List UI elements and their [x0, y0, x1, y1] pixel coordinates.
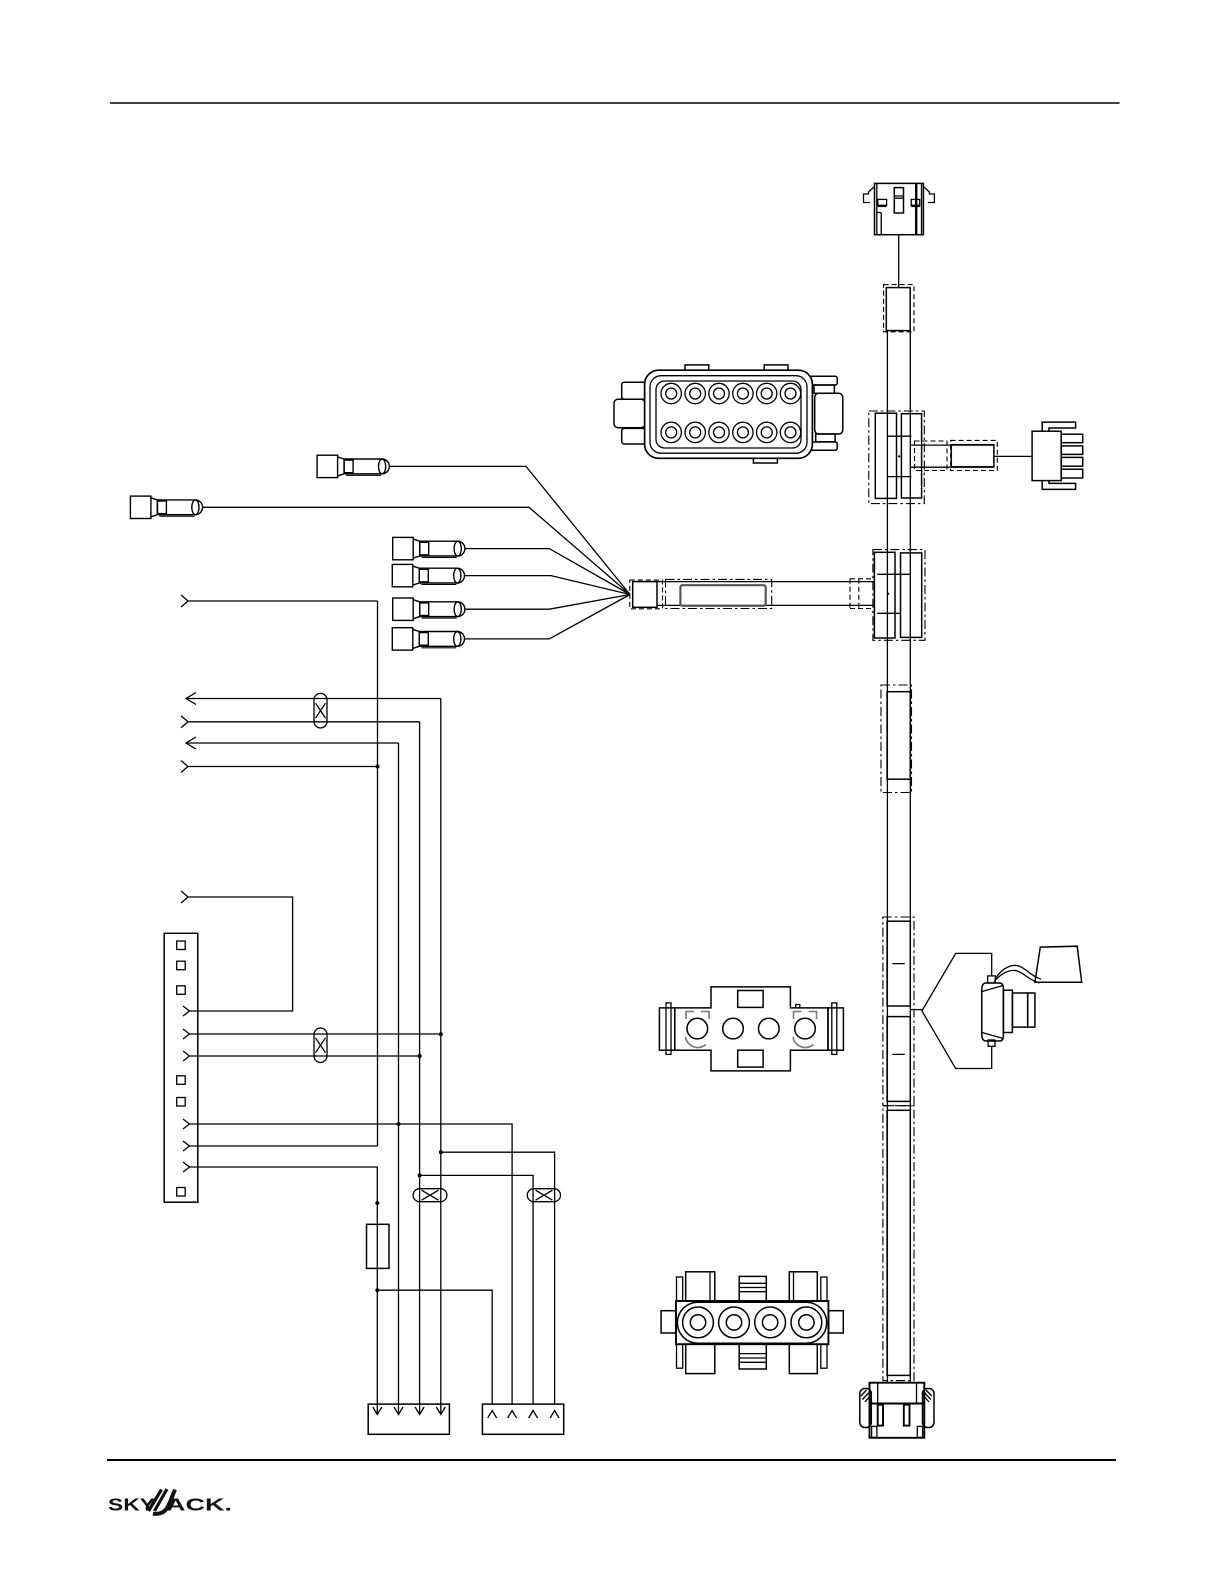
wire terminal T1 lead	[389, 466, 630, 594]
wire terminal T4 lead	[464, 576, 630, 595]
box GB1 (heat-shrink end, wires in)	[368, 1404, 449, 1434]
valve V1 body	[982, 983, 1004, 1041]
terminal T4	[392, 564, 464, 586]
wire bus 3 vertical	[419, 722, 421, 1413]
terminal T1	[317, 455, 389, 477]
wire stub to J2	[994, 455, 1032, 457]
sleeve S1 (dashed)	[884, 285, 914, 332]
dust cap	[1035, 946, 1082, 982]
sleeve S3	[881, 685, 912, 793]
sleeve S4 (double section)	[883, 917, 914, 1106]
svg-text:SKY: SKY	[108, 1495, 155, 1515]
wire A1 (arrow lead to vertical bus 4)	[186, 693, 441, 705]
connector J1 (2-pin plug, top)	[864, 183, 935, 234]
wire harness trunk left edge	[886, 331, 888, 1383]
valve V1 bottom pin	[988, 1040, 995, 1046]
stub B1 to J2	[911, 440, 997, 470]
terminal T6	[392, 628, 464, 650]
connector J2 (4-pin)	[1032, 422, 1083, 489]
svg-text:ACK.: ACK.	[166, 1495, 232, 1515]
wire bus 4 vertical	[440, 699, 442, 1414]
junction bus1/A4	[376, 765, 380, 769]
wire fuse to box GB1	[376, 1268, 378, 1413]
wire A5 loop to strip pin 4	[181, 891, 293, 1011]
wire strip pin6 to bus3	[190, 1055, 420, 1057]
wire bus 1 vertical	[377, 601, 379, 1146]
node splice	[375, 1201, 379, 1205]
J5 cavity 4	[793, 1012, 817, 1048]
wire A4 (chevron lead joining bus 1)	[181, 761, 378, 773]
connector J4 (12-socket receptacle)	[614, 365, 843, 463]
twisted pair marker TP1	[314, 693, 327, 728]
wire terminal T2 lead	[202, 507, 630, 594]
terminal T5	[393, 598, 465, 620]
wire strip pin7 drop	[190, 1124, 512, 1404]
callout bracket	[922, 953, 992, 1068]
fuse F2	[367, 1224, 390, 1268]
hose to cap	[994, 965, 1041, 983]
connector J3 (bottom plug)	[860, 1383, 934, 1438]
break marker on band	[850, 579, 875, 609]
wire branch to box GB2 pin1	[377, 1290, 492, 1404]
wire harness trunk right edge	[909, 331, 911, 1383]
wire A3 (arrow lead to vertical bus 2)	[186, 737, 399, 749]
junction bus4 branch	[439, 1150, 443, 1154]
sleeve S5 (long)	[883, 1106, 914, 1381]
Skyjack logo	[108, 1489, 232, 1515]
node B1 center	[898, 455, 900, 457]
wire strip pin5 to bus4	[190, 1033, 441, 1035]
J4 socket cavities	[661, 383, 801, 442]
harness band to B2	[657, 582, 875, 606]
junction bus3 branch	[418, 1173, 422, 1177]
label L1 on band	[666, 579, 772, 608]
connector X1 (terminal strip)	[164, 933, 198, 1202]
connector J5 (4-way cross body)	[659, 987, 843, 1071]
wire branch bus3 to GB2 pin3	[420, 1175, 533, 1404]
breakout block B1	[869, 411, 925, 504]
wire branch bus4 to GB2 pin4	[441, 1152, 555, 1404]
valve V1 coil section	[1003, 990, 1034, 1032]
wire A2 (chevron lead to vertical bus 3)	[181, 716, 420, 728]
J6 sockets	[683, 1307, 822, 1338]
wire terminal T6 lead	[464, 595, 630, 639]
terminal T3	[393, 537, 465, 559]
wire strip pin8 to bus1	[190, 1145, 378, 1147]
connector J6 (4-socket inline)	[661, 1272, 843, 1374]
wire strip pin9 to fuse	[190, 1167, 377, 1224]
terminal T2	[130, 496, 202, 518]
node B2 center	[887, 593, 889, 595]
twisted pair marker TP3	[413, 1189, 447, 1202]
junction fuse branch	[375, 1288, 379, 1292]
J5 cavity 2	[723, 1018, 744, 1039]
junction pin5/bus4	[439, 1032, 443, 1036]
wire bus 2 vertical	[398, 743, 400, 1413]
twisted pair marker TP4	[527, 1189, 560, 1202]
J5 cavity 3	[759, 1018, 780, 1039]
twisted pair marker TP2	[314, 1028, 327, 1063]
wire callout to harness	[910, 1009, 922, 1011]
wire A0 (chevron lead to vertical bus 1)	[181, 595, 378, 607]
junction pin6/bus3	[418, 1054, 422, 1058]
breakout block B2	[873, 550, 925, 641]
ferrule F1	[630, 580, 663, 609]
box GB2 (heat-shrink end, sockets)	[482, 1404, 563, 1434]
valve V1 top pin	[988, 976, 996, 983]
wire J1 to sleeve S1	[898, 235, 900, 288]
wire terminal T5 lead	[465, 595, 630, 610]
wire terminal T3 lead	[465, 549, 630, 595]
junction pin7/bus2	[397, 1122, 401, 1126]
J5 cavity 1	[686, 1012, 710, 1048]
